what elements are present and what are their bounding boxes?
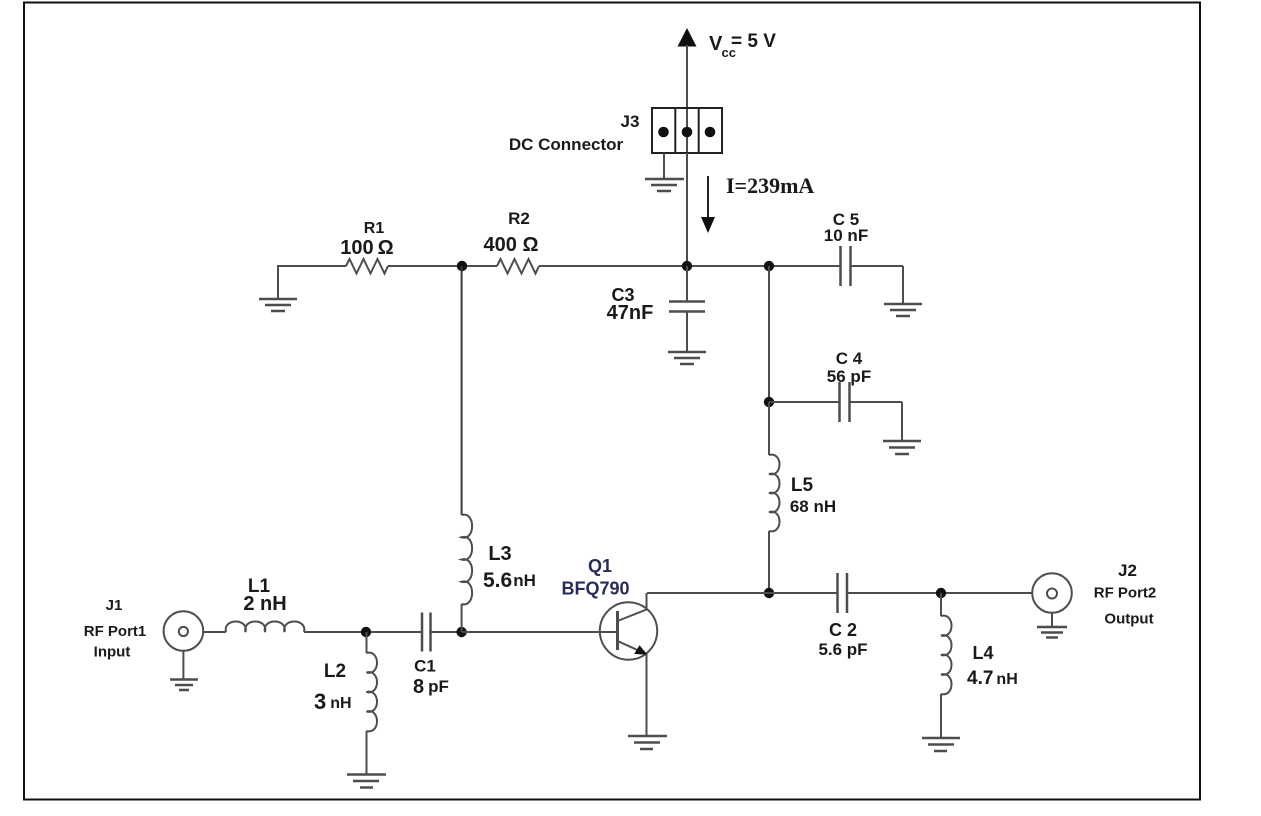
svg-text:L4: L4 — [972, 643, 993, 663]
label Q1 / BFQ790 — [561, 556, 629, 599]
svg-text:Output: Output — [1104, 611, 1153, 628]
svg-text:BFQ790: BFQ790 — [561, 579, 629, 599]
svg-text:68 nH: 68 nH — [790, 497, 836, 516]
svg-text:R1: R1 — [364, 220, 385, 237]
node (C1 / L3 / base) — [456, 627, 466, 637]
ground (C5) — [884, 304, 922, 316]
wire node to base — [462, 631, 618, 633]
svg-text:J1: J1 — [106, 597, 123, 614]
svg-text:10 nF: 10 nF — [824, 226, 868, 245]
wire L3 to R1/R2 node — [461, 266, 463, 515]
wire: left drop to ground — [277, 265, 279, 299]
resistor R2 — [484, 209, 539, 274]
svg-text:Input: Input — [94, 644, 131, 661]
svg-text:RF Port2: RF Port2 — [1094, 585, 1157, 602]
wire L1 to node — [304, 631, 421, 633]
ground (L4) — [922, 738, 960, 751]
capacitor C1 — [413, 613, 462, 699]
capacitor C3 — [607, 266, 705, 352]
node (R1/R2/L3) — [457, 261, 467, 271]
connector J3 — [652, 108, 722, 153]
wire C4 node to L5 — [768, 402, 770, 455]
inductor L2 — [314, 632, 377, 774]
ground (L2) — [347, 775, 386, 788]
svg-text:J3: J3 — [621, 112, 640, 131]
connector J1 — [164, 611, 226, 679]
node (C4 branch) — [764, 397, 774, 407]
svg-text:47nF: 47nF — [607, 302, 654, 324]
svg-text:C1: C1 — [414, 657, 436, 676]
Vcc supply arrow — [678, 28, 697, 108]
wire: left rail — [278, 265, 346, 267]
inductor L4 — [941, 593, 1018, 738]
wire R1 to R2 — [388, 265, 497, 267]
svg-text:2 nH: 2 nH — [243, 593, 286, 615]
ground (C3) — [668, 352, 706, 364]
inductor L3 — [462, 515, 536, 605]
svg-text:C 2: C 2 — [829, 620, 857, 640]
connector J2 — [1032, 573, 1072, 627]
label J3 / DC Connector — [509, 112, 640, 154]
svg-text:C 4: C 4 — [836, 349, 863, 368]
wire node to L3 coil — [461, 604, 463, 632]
capacitor C5 — [824, 210, 903, 304]
node (L1 / L2 / C1) — [361, 627, 371, 637]
current arrow I=239mA — [701, 176, 715, 233]
inductor L1 — [226, 576, 305, 632]
svg-text:Q1: Q1 — [588, 556, 612, 576]
wire J3 to rail — [686, 153, 688, 266]
transistor Q1 — [600, 593, 657, 736]
inductor L5 — [769, 455, 836, 532]
node (C5 branch) — [764, 261, 774, 271]
svg-text:8pF: 8pF — [413, 676, 449, 698]
wire C5 node down to C4 node — [768, 266, 770, 402]
ground (J2) — [1037, 627, 1067, 638]
svg-text:J2: J2 — [1118, 561, 1137, 580]
node (C2 / L4 / J2) — [936, 588, 946, 598]
wire R2 to C5 — [539, 265, 840, 267]
wire collector rail — [647, 592, 838, 594]
node (collector / L5 / C2) — [764, 588, 774, 598]
svg-text:400 Ω: 400 Ω — [484, 234, 539, 256]
svg-text:R2: R2 — [508, 209, 530, 228]
ground (C4) — [883, 441, 921, 454]
capacitor C4 — [769, 349, 902, 441]
ground (J1) — [170, 680, 198, 691]
svg-text:L2: L2 — [324, 661, 346, 682]
resistor R1 — [340, 220, 393, 274]
wire L5 to collector rail — [768, 531, 770, 593]
ground (J3) — [645, 153, 684, 191]
capacitor C2 — [818, 573, 1032, 659]
net label Vcc = 5 V — [709, 31, 776, 60]
svg-text:L3: L3 — [488, 543, 511, 565]
label J1 / RF Port1 / Input — [84, 597, 147, 661]
ground (Q1 emitter) — [628, 736, 667, 749]
svg-text:L5: L5 — [791, 475, 814, 496]
svg-text:DC Connector: DC Connector — [509, 135, 624, 154]
svg-text:100 Ω: 100 Ω — [340, 237, 393, 259]
ground (left of R1) — [259, 299, 297, 311]
svg-text:5.6 pF: 5.6 pF — [818, 640, 867, 659]
label J2 / RF Port2 / Output — [1094, 561, 1157, 628]
node (Vcc line / rail) — [682, 261, 692, 271]
svg-text:= 5 V: = 5 V — [731, 31, 776, 52]
svg-text:RF Port1: RF Port1 — [84, 623, 147, 640]
svg-text:56 pF: 56 pF — [827, 367, 871, 386]
svg-text:4.7nH: 4.7nH — [967, 668, 1018, 689]
svg-text:I=239mA: I=239mA — [726, 173, 814, 198]
svg-text:5.6nH: 5.6nH — [483, 569, 536, 592]
